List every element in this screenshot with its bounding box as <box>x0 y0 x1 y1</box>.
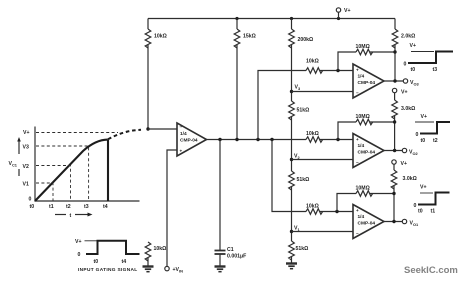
svg-text:V+: V+ <box>401 161 408 167</box>
node junction dots on top rail <box>235 17 238 20</box>
power terminal V+ pull-up VO1 <box>392 160 407 167</box>
svg-text:51kΩ: 51kΩ <box>297 177 310 183</box>
power terminal V+ pull-up VO2 <box>392 88 407 95</box>
wire V3 to U2 - input <box>292 91 354 93</box>
node V1 <box>290 226 301 234</box>
svg-text:+VIN: +VIN <box>173 267 184 273</box>
svg-text:0.001μF: 0.001μF <box>227 254 246 260</box>
svg-text:V+: V+ <box>420 185 427 191</box>
svg-text:10kΩ: 10kΩ <box>154 34 167 40</box>
svg-text:V1: V1 <box>23 182 29 188</box>
resistor R4 2.0k pull-up VO3 <box>392 19 415 82</box>
node dots on VC1 bus <box>218 138 221 141</box>
wire U4 output <box>384 221 402 223</box>
svg-text:+: + <box>356 68 359 73</box>
svg-text:t0: t0 <box>411 67 416 73</box>
svg-text:+: + <box>356 208 359 213</box>
resistor R12 10k (U3 + input) <box>306 131 353 142</box>
dashed level V+ <box>36 132 118 134</box>
resistor R6 51k (V3-V2) <box>289 92 310 160</box>
svg-text:3.0kΩ: 3.0kΩ <box>403 176 417 182</box>
svg-text:0: 0 <box>416 132 419 138</box>
node V2 <box>290 154 301 162</box>
svg-text:1/4: 1/4 <box>358 74 365 80</box>
resistor R14 3.0k pull-up VO1 <box>391 164 417 221</box>
wire V2 to U3 - input <box>292 159 354 161</box>
graph t labels <box>30 204 108 210</box>
svg-text:t1: t1 <box>49 204 54 210</box>
wire VC1 to upper comparator <box>258 71 306 140</box>
input gating signal waveform <box>75 239 140 265</box>
wire VC1 to lower comparator <box>272 140 306 212</box>
svg-text:10MΩ: 10MΩ <box>356 114 370 120</box>
node feedback/pull-up junction <box>393 50 396 53</box>
wire U1 + input to VIN terminal <box>167 150 177 266</box>
svg-text:VO1: VO1 <box>410 221 419 227</box>
svg-text:10MΩ: 10MΩ <box>356 44 370 50</box>
wire top supply rail <box>148 18 395 20</box>
svg-text:51kΩ: 51kΩ <box>296 246 309 252</box>
svg-text:VO3: VO3 <box>410 80 419 86</box>
input terminal +VIN <box>165 266 183 273</box>
op-amp U2 1/4 CMP-04 <box>353 64 384 98</box>
node U2 + input junction <box>336 69 339 72</box>
waveform VO2 step at t2 <box>415 114 450 144</box>
svg-text:t4: t4 <box>122 259 127 265</box>
svg-text:V+: V+ <box>401 90 408 96</box>
resistor R8 51k (V1-gnd) <box>289 232 309 263</box>
op-amp U4 1/4 CMP-04 <box>353 205 384 239</box>
svg-text:−: − <box>356 231 359 236</box>
power terminal V+ top <box>336 8 350 19</box>
svg-text:+: + <box>356 137 359 142</box>
waveform VO1 step at t1 <box>414 185 450 215</box>
op-amp U1 1/4 CMP-04 (ramp comparator) <box>177 123 207 156</box>
svg-text:10MΩ: 10MΩ <box>356 186 370 192</box>
svg-text:CMP-04: CMP-04 <box>358 80 376 86</box>
svg-text:t: t <box>70 213 72 219</box>
svg-text:0: 0 <box>404 62 407 68</box>
svg-text:V+: V+ <box>344 8 351 14</box>
graph y labels <box>23 130 32 203</box>
resistor R2 15k (charging) <box>234 19 256 140</box>
wire U2 output <box>384 80 403 82</box>
graph axes VC1 vs t <box>35 127 140 202</box>
wire U1 output bus (VC1 node) <box>207 139 307 141</box>
svg-text:V3: V3 <box>295 85 301 91</box>
resistor R9 10k (U2 + input) <box>306 59 353 74</box>
node V3 <box>290 85 301 94</box>
resistor R3 200k (ladder top) <box>289 19 314 92</box>
op-amp U3 1/4 CMP-04 <box>353 134 384 168</box>
output terminal VO3 <box>403 79 419 87</box>
ramp curve VC1 <box>35 140 108 201</box>
svg-text:V+: V+ <box>421 114 428 120</box>
svg-text:V3: V3 <box>23 145 29 151</box>
svg-text:V+: V+ <box>410 43 417 49</box>
resistor R13 10M feedback U3 <box>338 114 395 140</box>
node U4 + input junction <box>335 210 338 213</box>
dashed level V2 <box>36 166 71 202</box>
svg-text:VC1: VC1 <box>9 161 18 168</box>
node feedback/pull-up junction 2 <box>393 120 396 123</box>
wire U1 top input <box>148 128 177 130</box>
svg-text:V1: V1 <box>294 226 300 232</box>
svg-text:1/4: 1/4 <box>358 143 365 149</box>
svg-text:+: + <box>180 149 183 154</box>
svg-text:t3: t3 <box>433 67 438 73</box>
svg-text:C1: C1 <box>227 247 234 253</box>
svg-text:0: 0 <box>414 203 417 209</box>
axis annotation VC1 with arrow <box>9 137 21 176</box>
dashed level V1 <box>36 183 53 201</box>
svg-text:CMP-04: CMP-04 <box>358 150 376 156</box>
svg-text:−: − <box>180 125 183 130</box>
svg-text:CMP-04: CMP-04 <box>358 221 376 227</box>
node U3 + input junction <box>336 138 339 141</box>
svg-text:−: − <box>356 91 359 96</box>
resistor R15 10k (U4 + input) <box>306 204 353 215</box>
svg-text:1/4: 1/4 <box>180 131 187 137</box>
svg-text:t0: t0 <box>30 204 35 210</box>
svg-text:SeekIC.com: SeekIC.com <box>404 265 458 276</box>
resistor R5 10k (bottom left, to ground) <box>145 242 166 266</box>
resistor R10 10M feedback U2 <box>338 44 395 71</box>
ground C1 <box>215 267 226 272</box>
wire V1 to U4 - input <box>292 231 354 233</box>
svg-text:0: 0 <box>29 197 32 203</box>
svg-text:200kΩ: 200kΩ <box>298 37 314 43</box>
time arrow under graph <box>55 213 93 220</box>
svg-text:0: 0 <box>78 252 81 258</box>
svg-text:t2: t2 <box>66 204 71 210</box>
svg-text:10kΩ: 10kΩ <box>306 59 319 65</box>
svg-text:3.0kΩ: 3.0kΩ <box>401 106 415 112</box>
svg-text:1/4: 1/4 <box>358 214 365 220</box>
svg-text:2.0kΩ: 2.0kΩ <box>401 34 415 40</box>
svg-text:−: − <box>356 160 359 165</box>
dashed ramp extension to comparator input <box>108 130 141 139</box>
node feedback/pull-up junction 3 <box>392 192 395 195</box>
svg-text:t0: t0 <box>418 209 423 215</box>
svg-text:15kΩ: 15kΩ <box>243 34 256 40</box>
waveform VO3 step at t3 <box>404 43 454 73</box>
svg-text:t1: t1 <box>431 209 436 215</box>
svg-text:10kΩ: 10kΩ <box>154 246 167 252</box>
resistor R1 10k (top left divider) <box>145 19 167 130</box>
node VC1 junction at U1 inverting input <box>146 127 149 130</box>
output terminal VO2 <box>402 148 418 156</box>
svg-text:t2: t2 <box>433 138 438 144</box>
svg-text:t3: t3 <box>84 204 89 210</box>
ground ladder <box>286 264 297 269</box>
svg-text:V2: V2 <box>294 154 300 160</box>
resistor R11 3.0k pull-up VO2 <box>392 93 415 151</box>
svg-text:V+: V+ <box>23 130 30 136</box>
svg-text:V2: V2 <box>23 164 29 170</box>
svg-text:CMP-04: CMP-04 <box>180 138 198 144</box>
resistor R7 51k (V2-V1) <box>289 160 310 232</box>
svg-text:VO2: VO2 <box>409 150 418 156</box>
svg-text:INPUT GATING SIGNAL: INPUT GATING SIGNAL <box>78 267 138 273</box>
svg-text:t0: t0 <box>421 138 426 144</box>
ground R5 <box>143 267 154 272</box>
svg-text:10kΩ: 10kΩ <box>306 204 319 210</box>
wire U3 output <box>384 150 402 152</box>
capacitor C1 0.001uF <box>215 140 247 266</box>
ramp discharge edge at t4 <box>107 140 109 201</box>
svg-text:10kΩ: 10kΩ <box>306 131 319 137</box>
resistor R16 10M feedback U4 <box>337 186 394 212</box>
svg-text:V+: V+ <box>75 239 82 245</box>
svg-text:t4: t4 <box>103 204 108 210</box>
svg-text:t0: t0 <box>94 259 99 265</box>
svg-text:51kΩ: 51kΩ <box>297 108 310 114</box>
dashed level V3 <box>36 146 89 201</box>
output terminal VO1 <box>402 219 419 227</box>
